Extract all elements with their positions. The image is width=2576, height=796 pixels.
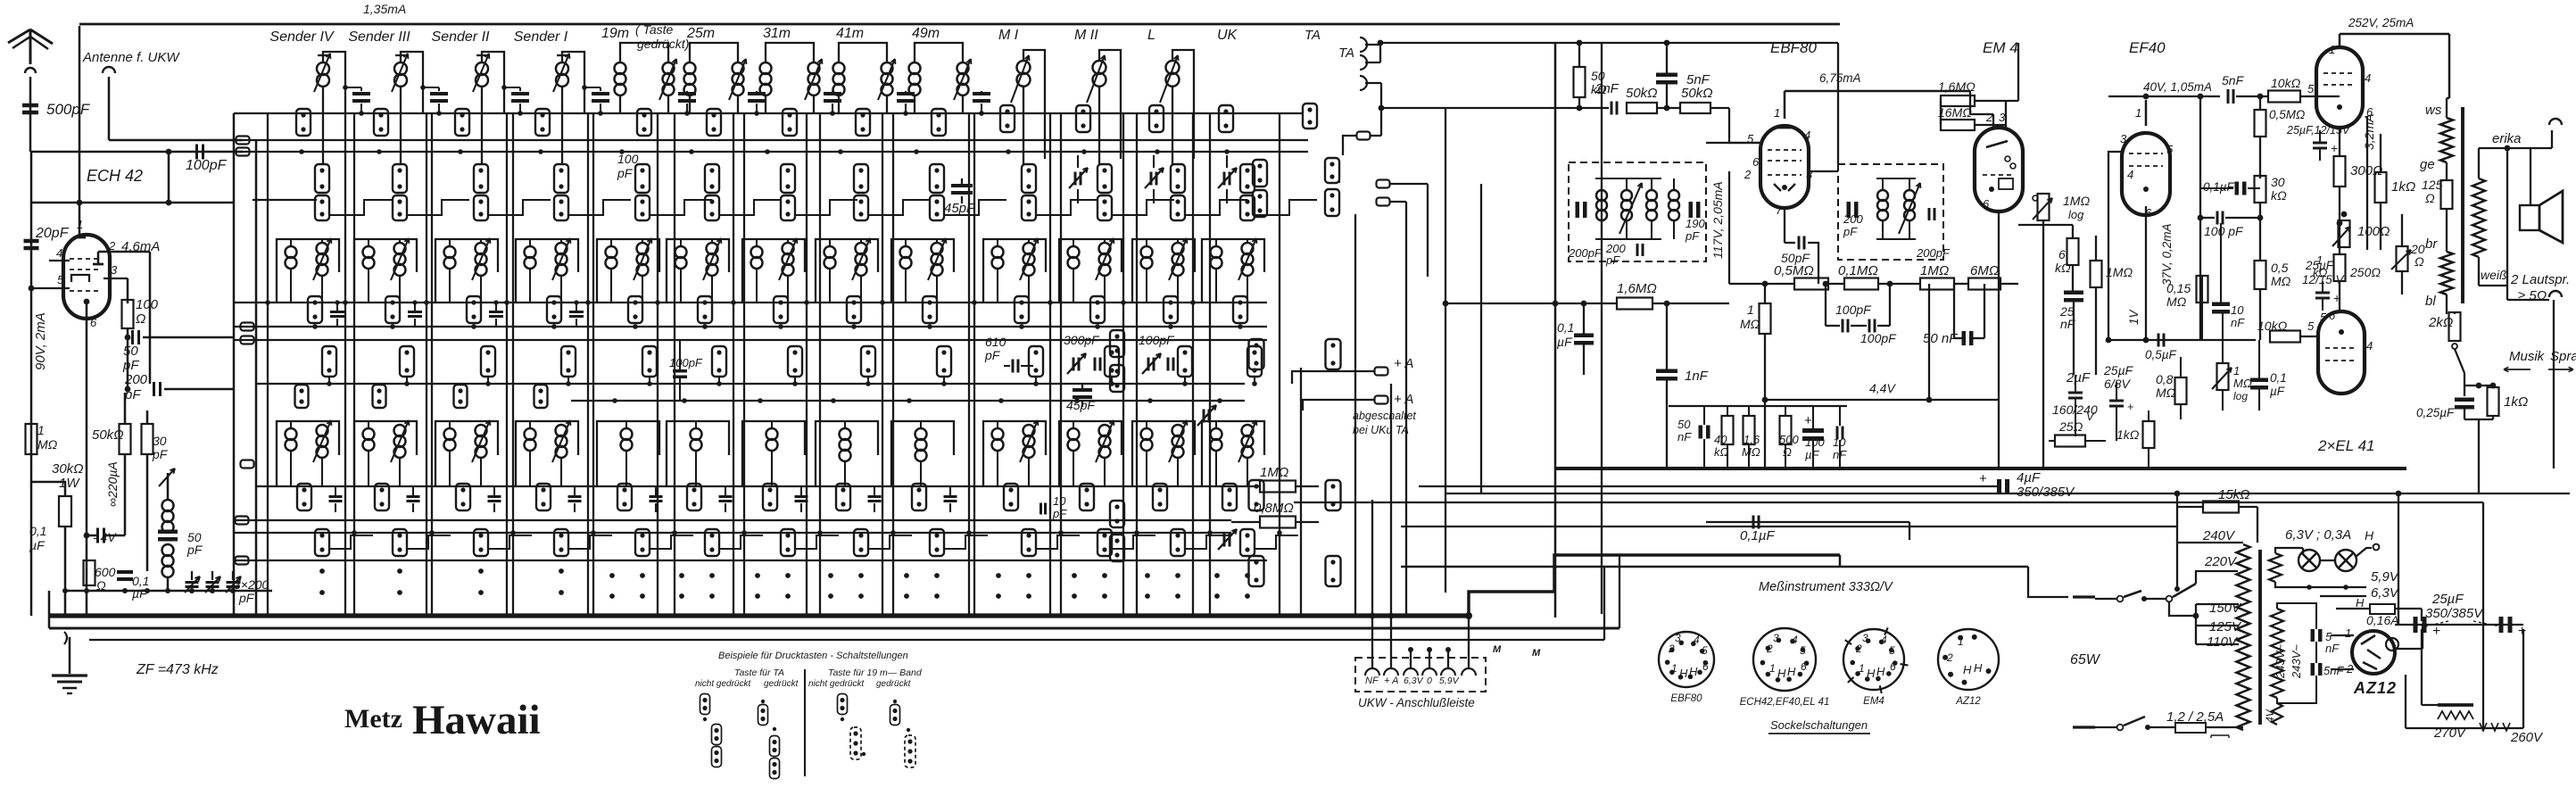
svg-text:100pF: 100pF [669,356,703,369]
svg-text:220V: 220V [2204,554,2238,569]
svg-text:Sender III: Sender III [348,29,410,45]
wire vertical 1815 [1619,555,1620,628]
trimmer capacitors right edge [1203,410,1205,423]
resistor 25 Ohm ps [2055,435,2085,447]
column 41m switch block C [847,296,861,323]
svg-text:Taste für TA: Taste für TA [734,667,784,678]
svg-text:3: 3 [1999,111,2006,124]
pilot lamps [2299,550,2320,571]
TA hook wires [1365,44,1380,46]
column L jog wire 2 [1184,377,1186,384]
matrix buses [234,112,1303,114]
resistor 0,15MOhm [2197,276,2208,303]
column L switch block C [1164,296,1178,323]
ECH42 pin3 [104,278,128,279]
svg-text:2: 2 [1946,651,1953,664]
column Sender III switch blocks B [393,164,407,193]
capacitor 200pF [127,337,129,389]
svg-text:br: br [2425,236,2438,252]
column Sender III top coil [401,52,423,113]
column 19m jog wire 2 [649,377,650,384]
transformer core [2258,550,2262,725]
svg-text:0,16A: 0,16A [2366,613,2399,627]
IF2 capacitor 200pF right [1928,208,1931,220]
svg-text:pF: pF [238,591,255,605]
column Sender II band2 capacitor [489,311,503,313]
svg-text:log: log [2233,390,2248,402]
column 49m switch block A [932,109,946,136]
svg-text:50: 50 [123,344,138,359]
svg-text:EM 4: EM 4 [1983,39,2018,56]
Beispiele switch symbols TA nicht [700,694,710,715]
svg-text:log: log [2068,208,2084,221]
svg-text:+: + [1804,413,1812,428]
antenna [8,29,30,43]
column Sender IV top coil [323,52,345,113]
svg-text:Sender I: Sender I [514,29,568,45]
resistor 50kOhm h1 [1627,103,1657,113]
column UK bus junctions [1190,300,1196,305]
bias winding [2272,703,2282,725]
svg-text:0,5MΩ: 0,5MΩ [1774,263,1814,278]
svg-text:0,5MΩ: 0,5MΩ [2269,108,2305,121]
wire bottom collect [65,590,272,593]
tube ECH42 [63,235,110,319]
capacitor 0,1uF v [2250,378,2268,383]
svg-text:H: H [1777,667,1786,680]
capacitor 100pF series [169,151,243,153]
svg-text:- 4V: - 4V [93,530,117,544]
svg-text:0,8: 0,8 [2156,372,2174,386]
column M II bus junctions [1048,300,1053,305]
svg-text:200pF: 200pF [1568,246,1603,260]
svg-text:0,5: 0,5 [2271,261,2289,275]
svg-text:pF: pF [1605,253,1620,267]
column 19m switch block E [617,484,632,510]
svg-text:0,5µF: 0,5µF [2145,348,2177,361]
column UK switch block D [1247,346,1262,377]
svg-text:10: 10 [1053,494,1066,508]
column 19m switch block F [635,529,650,556]
column Sender II bus junctions [424,300,429,305]
svg-text:4: 4 [2127,168,2133,181]
svg-text:H: H [1963,663,1972,676]
svg-text:H: H [1974,661,1983,675]
column Sender III jog wire 2 [406,377,408,384]
svg-text:ECH42,EF40,EL 41: ECH42,EF40,EL 41 [1740,697,1830,708]
svg-text:5: 5 [2320,311,2327,324]
capacitor 5nF ps1 [2311,629,2315,642]
capacitor 500pF [22,104,38,108]
column 49m switch block D [937,346,951,377]
capacitor 5nF [1656,73,1677,78]
column 25m band2 loop [667,239,729,302]
column Sender III band3 loop [354,421,417,486]
svg-text:0: 0 [1427,676,1432,686]
svg-text:+: + [2333,291,2340,305]
column Sender II switch block A [455,109,469,136]
svg-text:Ω: Ω [2414,254,2424,269]
column 41m switch block D [861,346,875,377]
svg-text:MΩ: MΩ [2156,386,2176,400]
column 31m switch block F [781,529,795,556]
column Sender II switch block F [474,529,488,556]
svg-text:bei UKu TA: bei UKu TA [1353,424,1409,436]
column M II switch block D [1105,346,1119,377]
svg-text:kΩ: kΩ [2055,261,2071,275]
svg-text:6: 6 [1983,197,1990,211]
column L switch block E [1153,484,1167,510]
column Sender IV band2 loop [277,239,339,302]
resistor 1kOhm 250 Ohm [2334,254,2346,281]
svg-text:50: 50 [1677,418,1691,431]
column Sender I switch block A [535,109,550,136]
svg-text:25µF,12/15V: 25µF,12/15V [2286,124,2351,137]
resistor 0,5MOhm a [2255,110,2266,137]
TA routing wires [1343,136,1356,155]
svg-text:250Ω: 250Ω [2349,265,2381,279]
svg-text:Antenne f. UKW: Antenne f. UKW [82,50,180,65]
svg-text:nF: nF [1677,430,1692,444]
column 19m band2 coils [606,246,617,258]
wire 5,9V [2295,586,2366,588]
column 49m switch block F [930,529,944,556]
column 25m bus junctions [655,300,660,305]
IF2 capacitor 200pF left [1847,202,1851,218]
column 49m switch blocks B [930,164,944,193]
svg-text:EF40: EF40 [2129,39,2166,56]
speaker [2520,205,2539,230]
column Sender IV switch block E [297,484,311,510]
column Sender IV staircase wire [329,200,392,215]
svg-text:Taste für 19 m— Band: Taste für 19 m— Band [828,667,923,678]
svg-text:V: V [2086,410,2095,423]
svg-text:pF: pF [122,358,139,373]
column 25m trimmer top [748,92,766,95]
capacitor 5nF out [2227,89,2230,104]
column Sender III switch block D [400,346,414,377]
svg-text:EM4: EM4 [1863,696,1884,707]
column Sender IV band2 capacitor [330,311,344,313]
column M II rails [1049,113,1051,614]
column 19m bus junctions [585,300,591,305]
svg-text:1: 1 [2135,106,2141,120]
column M I band2 loop [983,239,1046,302]
svg-text:0,1µF: 0,1µF [1740,528,1775,543]
svg-text:EBF80: EBF80 [1670,693,1702,704]
svg-text:30: 30 [2271,175,2285,189]
svg-text:5: 5 [1800,644,1806,657]
column 19m switch block C [628,296,642,323]
mains leads upper [2073,595,2095,598]
svg-text:4µF: 4µF [2017,470,2041,485]
column M I rails [973,113,975,614]
column Sender I bus junctions [504,300,509,305]
svg-text:3: 3 [1862,632,1868,644]
svg-text:6: 6 [1752,155,1760,169]
svg-text:2 Lautspr.: 2 Lautspr. [2510,272,2570,287]
column M I band2 coils [992,246,1004,258]
column 31m band3 loop [742,421,805,486]
svg-text:4,4V: 4,4V [1869,381,1896,395]
column M I switch blocks B [1022,164,1036,193]
svg-text:1kΩ: 1kΩ [2391,179,2415,195]
component row above bus [1669,405,1847,407]
svg-text:4V: 4V [2264,709,2276,723]
column 25m bottom dots [679,573,684,578]
svg-text:6,3V ; 0,3A: 6,3V ; 0,3A [2285,527,2351,543]
column 19m band2 loop [597,239,659,302]
svg-text:260V: 260V [2510,730,2544,745]
svg-text:0,1MΩ: 0,1MΩ [1838,263,1878,278]
capacitor 5nF ps2 [2311,663,2315,676]
svg-text:H: H [1787,665,1796,678]
UKW terminals [1365,668,1379,676]
column 41m jog wire 2 [867,377,869,384]
svg-text:1: 1 [1671,662,1677,675]
column UK band3 coils [1211,428,1222,440]
column 41m band2 loop [816,239,878,302]
svg-text:Ω: Ω [136,311,145,327]
column 31m switch block A [783,109,797,136]
svg-text:240V: 240V [2202,528,2236,543]
column 49m switch block E [912,484,926,510]
switch blocks right edge [1110,330,1124,357]
svg-text:0,1: 0,1 [2270,371,2287,385]
column L band3 coils [1141,428,1153,440]
svg-text:5nF: 5nF [2323,664,2344,677]
svg-text:kΩ: kΩ [2271,188,2287,203]
EBF80 pin5 wire [1706,142,1760,144]
socket AZ12 [1938,629,1999,690]
svg-text:1,6MΩ: 1,6MΩ [1938,79,1975,94]
svg-text:ws: ws [2425,103,2442,118]
svg-text:TA: TA [1338,46,1354,61]
svg-text:( Taste: ( Taste [635,22,673,37]
svg-text:1: 1 [2329,43,2335,56]
wire to bus [30,151,169,153]
svg-text:UK: UK [1217,28,1238,43]
column M I switch block E [1004,484,1018,510]
svg-text:350/385V: 350/385V [2017,485,2075,500]
column UK switch blocks B [1240,164,1255,193]
column Sender I staircase wire [568,200,631,215]
column UK jog wire 2 [1254,377,1255,384]
electrolytic 25uF a [2414,617,2418,633]
column Sender I rails [506,113,508,614]
resistor 1kOhm ps [2143,421,2155,448]
svg-text:49m: 49m [912,26,940,41]
svg-text:19m: 19m [601,26,629,41]
svg-text:100pF: 100pF [1860,331,1897,345]
svg-text:100: 100 [136,297,159,312]
EBF80 pin3 wire [1809,170,1838,172]
resistor network 270V [2438,703,2473,707]
wire grid lower [1728,171,1730,284]
svg-text:0,8MΩ: 0,8MΩ [1254,501,1294,516]
socket ECH42 EF40 EL41 [1753,628,1816,691]
svg-text:50kΩ: 50kΩ [1681,86,1713,101]
column 49m bus junctions [880,300,885,305]
column M I switch block D [1029,346,1043,377]
column UK switch block A [1219,105,1233,132]
antenna UKW terminal [103,67,115,73]
svg-text:6: 6 [90,316,97,329]
capacitor 100pF r [2216,211,2219,225]
resistor 1MOhm ps [2091,261,2102,287]
resistor 1MOhm matrix right [1260,481,1296,493]
column M II band3 coils [1068,428,1080,440]
anode winding 243V [2271,609,2283,698]
column UK staircase wire [1255,200,1317,215]
Beispiele switch symbols 19m gedrueckt [893,700,897,703]
svg-text:4: 4 [1881,634,1887,646]
wire top bus [79,23,1840,26]
column 31m staircase wire [795,200,857,215]
column 31m trimmer top [824,92,841,95]
resistor 50kOhm h2 [1680,103,1710,113]
svg-text:243V~: 243V~ [2290,644,2303,679]
column UK band2 coils [1211,246,1222,258]
column 25m top coil [690,43,738,62]
capacitor 45pF b [1073,388,1092,392]
column 49m band2 coils [900,246,912,258]
column 49m rails [882,113,883,614]
resistor 0,8MOhm matrix right [1260,517,1296,528]
svg-text:5: 5 [2307,319,2315,333]
column 41m bottom dots [828,573,833,578]
capacitor 50pF [1784,208,1785,243]
column UK top coil [1253,160,1267,187]
column Sender IV jog wire 2 [328,377,330,384]
svg-text:3: 3 [1675,632,1681,644]
column 19m switch block A [637,109,651,136]
column 49m band3 coils [915,428,927,440]
svg-text:6: 6 [1890,660,1896,673]
long wires lower mid [1419,485,1909,487]
transformer primary winding [2237,544,2250,730]
svg-text:2µF: 2µF [2066,370,2091,386]
resistor 40kOhm [1722,416,1734,444]
svg-text:200: 200 [1843,212,1863,226]
svg-text:1: 1 [2345,626,2351,640]
column Sender III bottom dots [397,568,402,574]
IF1 capacitor 190pF [1689,202,1694,218]
wire left rail [30,152,33,616]
svg-text:10kΩ: 10kΩ [2271,76,2301,90]
svg-text:2: 2 [1744,168,1752,181]
svg-text:500: 500 [1779,433,1799,446]
column 25m switch block E [687,484,701,510]
column UK bottom dots [1214,573,1220,578]
column 49m band2 loop [891,239,954,302]
column M II band2 loop [1059,239,1122,302]
svg-text:1: 1 [37,423,45,437]
ECH42 pin6 cathode [84,299,90,305]
wire top right run [1380,42,1838,44]
column Sender I band2 loop [516,239,578,302]
column 41m switch blocks B [854,164,868,193]
svg-text:nF: nF [2231,316,2245,329]
resistor 0,5MOhm b [2255,261,2266,289]
column M II trimmer mid [1150,172,1153,186]
column 25m switch block C [698,296,712,323]
tube EM4 [1975,128,2023,211]
column 49m jog wire 2 [943,377,945,384]
column 31m switch block D [788,346,802,377]
svg-text:1W: 1W [59,476,80,491]
svg-text:3: 3 [111,263,118,277]
svg-text:1MΩ: 1MΩ [2106,265,2133,279]
column Sender IV switch block C [308,296,322,323]
svg-text:1nF: 1nF [1685,369,1709,384]
TA input hooks [1360,37,1367,52]
column Sender IV trimmer top [345,87,361,88]
tube EF40 [2122,133,2170,215]
column Sender II band3 loop [435,421,498,486]
column Sender II bottom dots [478,568,484,574]
column 41m switch block A [856,109,870,136]
column 25m switch blocks B [705,164,719,193]
column M II band3 loop [1059,421,1122,486]
column 49m bottom dots [904,573,909,578]
column Sender IV switch block D [322,346,336,377]
svg-text:M I: M I [998,28,1019,43]
wire y635 long [1401,566,2028,568]
speaker wiring [2479,147,2552,149]
svg-text:50kΩ: 50kΩ [1626,86,1658,101]
svg-text:+ A: + A [1384,676,1398,686]
svg-text:3: 3 [2120,132,2127,145]
svg-text:100pF: 100pF [1139,333,1175,347]
column L band3 loop [1132,421,1195,486]
column Sender I switch block E [536,484,551,510]
column M II jog wire 2 [1111,377,1113,384]
svg-text:37V, 0,2mA: 37V, 0,2mA [2160,223,2174,286]
column Sender I band2 capacitor [569,311,584,313]
wire AZ12 output [2395,648,2423,650]
svg-text:2: 2 [1766,643,1773,655]
column Sender II switch block E [456,484,470,510]
svg-text:25Ω: 25Ω [2058,419,2083,434]
svg-text:2kΩ: 2kΩ [2428,315,2453,330]
capacitor 10nF [1836,427,1839,440]
svg-text:500pF: 500pF [46,101,91,118]
svg-text:Musik: Musik [2509,349,2546,364]
IF transformer 2 [1838,164,1943,260]
mains leads lower [2073,726,2095,728]
column UK rails [1192,113,1194,614]
svg-text:pF: pF [1843,225,1858,238]
column 31m band2 coils [751,246,763,258]
svg-text:Ω: Ω [2425,191,2435,205]
column M I switch block C [1015,296,1029,323]
svg-text:6,3V: 6,3V [2371,585,2400,601]
column 31m bottom dots [755,573,760,578]
column M I bottom dots [996,573,1001,578]
IF transformer 1 [1569,162,1706,261]
svg-text:40V, 1,05mA: 40V, 1,05mA [2143,80,2212,94]
column 19m band3 coils [621,428,633,440]
svg-text:ZF =473 kHz: ZF =473 kHz [136,662,219,677]
svg-text:6: 6 [2058,247,2066,261]
svg-text:100pF: 100pF [186,158,228,173]
svg-text:5: 5 [2307,82,2315,95]
ECH42 pin5 [31,287,70,289]
svg-text:AZ12: AZ12 [2353,679,2397,697]
column 41m top coil [839,43,887,62]
column Sender II switch block C [467,296,481,323]
